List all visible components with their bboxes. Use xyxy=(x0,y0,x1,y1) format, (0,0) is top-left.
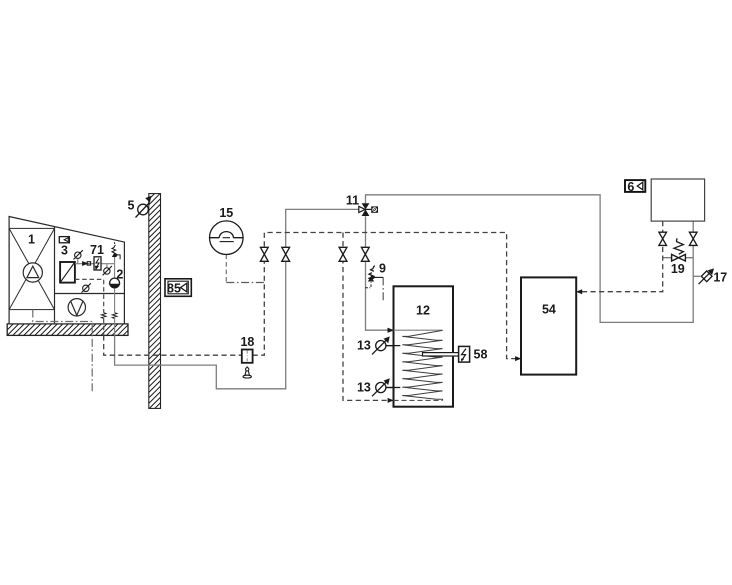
svg-text:71: 71 xyxy=(90,243,104,257)
svg-text:3: 3 xyxy=(61,244,68,258)
svg-text:15: 15 xyxy=(219,206,233,220)
svg-text:5: 5 xyxy=(128,198,135,212)
svg-text:19: 19 xyxy=(671,262,685,276)
svg-text:17: 17 xyxy=(713,270,727,284)
svg-text:9: 9 xyxy=(379,261,386,275)
svg-text:1: 1 xyxy=(28,233,35,247)
svg-text:58: 58 xyxy=(474,347,488,361)
svg-text:85: 85 xyxy=(167,282,181,296)
svg-text:18: 18 xyxy=(240,335,254,349)
svg-text:13: 13 xyxy=(357,338,371,352)
svg-text:54: 54 xyxy=(542,302,556,316)
svg-text:12: 12 xyxy=(416,304,430,318)
svg-text:13: 13 xyxy=(357,380,371,394)
svg-text:2: 2 xyxy=(116,267,123,281)
svg-text:6: 6 xyxy=(627,180,634,194)
svg-text:11: 11 xyxy=(346,194,359,208)
